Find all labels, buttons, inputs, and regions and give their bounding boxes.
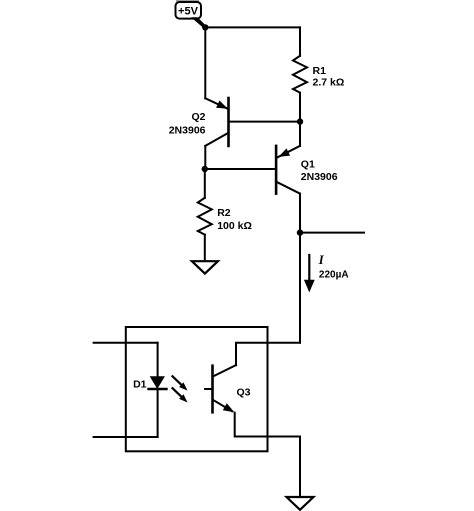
node D (output junction) [297, 229, 303, 235]
svg-text:I: I [318, 253, 325, 267]
optocoupler package box [126, 327, 268, 451]
wire: collector feed left then down to Q3 [236, 343, 300, 365]
transistor Q1 (PNP 2N3906) [205, 146, 300, 194]
svg-text:2N3906: 2N3906 [301, 171, 338, 183]
svg-text:R1: R1 [313, 65, 327, 77]
wire: down to bottom ground [299, 437, 301, 498]
svg-text:2.7 kΩ: 2.7 kΩ [313, 77, 345, 89]
label R2 value 100 kOhm [217, 207, 252, 232]
diode D1 (LED) [149, 376, 167, 389]
svg-text:Q3: Q3 [237, 387, 251, 399]
svg-text:D1: D1 [133, 379, 147, 391]
net flag +5V [176, 0, 207, 29]
wire: R1 bottom to node B [299, 93, 301, 122]
label R1 value 2.7 kOhm [313, 65, 345, 89]
svg-text:2N3906: 2N3906 [169, 125, 206, 137]
wire: Q1 emitter feed from node B [299, 122, 301, 146]
ground (below R2) [192, 261, 218, 273]
wire: LED anode rail [157, 343, 159, 377]
wire: left rail from Q2 collector to node C [204, 146, 206, 169]
wire: Q3 emitter down and right out of package [235, 413, 300, 437]
node A (supply junction) [202, 24, 208, 30]
transistor Q3 (phototransistor) [205, 365, 236, 412]
label Q2 2N3906 [169, 111, 206, 136]
node B (R1 / Q2 base / Q1 emitter junction) [297, 118, 303, 124]
resistor R1 [293, 56, 307, 93]
ground (bottom right) [287, 497, 314, 510]
resistor R2 [198, 198, 212, 235]
wire: top-left stub into package [94, 342, 158, 344]
wire: right rail down to R1 top [299, 27, 301, 55]
wire: Q1 collector down to node D [299, 194, 301, 233]
light emission arrows [173, 376, 188, 402]
transistor Q2 (PNP 2N3906, mirrored) [205, 98, 300, 146]
node C (Q2 collector / Q1 base / R2 junction) [202, 166, 208, 172]
svg-text:Q1: Q1 [301, 159, 315, 171]
label Q1 2N3906 [301, 159, 338, 183]
svg-text:100 kΩ: 100 kΩ [217, 220, 252, 232]
svg-text:+5V: +5V [178, 5, 199, 17]
svg-text:Q2: Q2 [191, 111, 205, 123]
wire: left rail from node A down to Q2 emitter [204, 27, 206, 98]
wire: bottom-left stub into package [94, 436, 158, 438]
wire: output stub to the right [300, 232, 364, 234]
wire: node C down to R2 [204, 169, 206, 198]
wire: top horizontal from node A to R1 branch [205, 26, 300, 28]
wire: LED cathode rail [157, 389, 159, 437]
svg-text:220µA: 220µA [319, 269, 349, 280]
current arrow I 220uA [304, 253, 349, 293]
svg-text:R2: R2 [217, 207, 231, 219]
wire: R2 bottom to ground [204, 235, 206, 262]
wire: node D down to optocoupler collector feed [299, 233, 301, 343]
